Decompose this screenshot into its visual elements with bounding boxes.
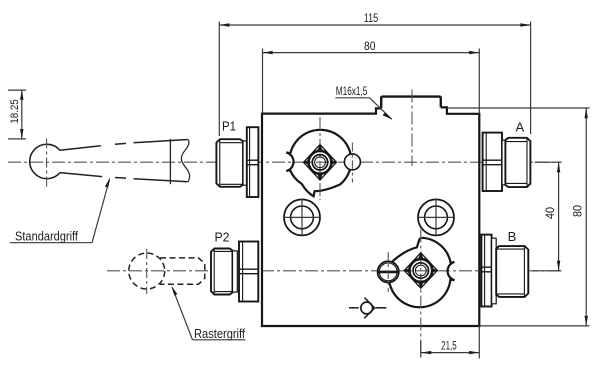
port A flange inner line bbox=[485, 133, 487, 191]
svg-text:B: B bbox=[508, 229, 517, 244]
svg-text:40: 40 bbox=[543, 207, 557, 219]
centerline handle ball vertical bbox=[46, 139, 48, 187]
centerline spool top vertical bbox=[319, 117, 321, 200]
centerline spool bottom vertical bbox=[420, 230, 422, 356]
port P1 washer bbox=[243, 141, 247, 185]
dimension 18.25 bbox=[8, 90, 26, 140]
svg-text:P2: P2 bbox=[215, 230, 230, 245]
svg-text:A: A bbox=[515, 119, 524, 134]
port B plug thread lines bbox=[496, 249, 524, 294]
body block outline bbox=[262, 107, 479, 326]
svg-text:Rastergriff: Rastergriff bbox=[194, 326, 245, 341]
dimension 80 right bbox=[447, 108, 590, 326]
label Rastergriff with leader bbox=[172, 286, 246, 341]
spool bottom diamond bbox=[404, 253, 437, 288]
port B flange seams bbox=[481, 267, 496, 272]
handle ball Standardgriff bbox=[30, 144, 60, 178]
Rastergriff grip dashed outline bbox=[160, 258, 205, 284]
port A plug bbox=[505, 138, 530, 187]
screw plug bottom bbox=[378, 261, 399, 282]
svg-text:P1: P1 bbox=[222, 118, 236, 133]
port P2 plug thread lines bbox=[214, 251, 232, 291]
svg-text:Standardgriff: Standardgriff bbox=[15, 229, 78, 244]
port B plug chamfer line bbox=[523, 247, 525, 296]
dimension 115 bbox=[219, 11, 530, 136]
handle joint line bbox=[169, 139, 171, 184]
spool bottom rings bbox=[409, 259, 432, 282]
centerline main horizontal P2-B axis bbox=[107, 270, 562, 272]
centerline rastergriff ball vertical bbox=[146, 249, 148, 294]
svg-text:21,5: 21,5 bbox=[441, 340, 457, 352]
dimension 40 bbox=[532, 162, 562, 271]
port P2 flange bbox=[239, 242, 258, 302]
port P2 flange seams bbox=[239, 269, 258, 274]
spool top outline bbox=[286, 130, 351, 197]
check valve symbol bbox=[349, 298, 386, 319]
port B flange inner line bbox=[484, 235, 486, 307]
callout M16x1,5 bbox=[335, 86, 392, 120]
boss M16 bbox=[381, 97, 441, 109]
handle break line bbox=[181, 140, 189, 182]
port P2 plug chamfer line bbox=[213, 249, 215, 293]
label Standardgriff with leader bbox=[10, 177, 111, 243]
port B washer bbox=[492, 238, 497, 304]
dimension 21,5 bbox=[421, 326, 480, 359]
svg-text:80: 80 bbox=[571, 205, 585, 217]
spool top arrows bbox=[303, 144, 337, 181]
port A plug chamfer line bbox=[526, 139, 528, 187]
handle cone top edge bbox=[60, 140, 188, 151]
svg-text:18.25: 18.25 bbox=[9, 99, 21, 124]
port P1 flange seams bbox=[247, 160, 259, 165]
svg-text:80: 80 bbox=[364, 39, 376, 53]
port B flange bbox=[481, 235, 491, 307]
centerline boss vertical bbox=[411, 90, 413, 167]
svg-text:115: 115 bbox=[364, 11, 379, 25]
Rastergriff ball dashed bbox=[129, 253, 165, 289]
port P1 plug bbox=[216, 139, 243, 187]
centerline small circle vertical bbox=[351, 143, 353, 183]
port P2 plug bbox=[211, 249, 233, 295]
port P2 washer bbox=[233, 251, 238, 292]
port P2 flange inner line bbox=[242, 242, 244, 302]
dimension 80 top bbox=[263, 39, 480, 114]
port P1 plug chamfer line bbox=[219, 140, 221, 186]
port P1 flange inner line bbox=[249, 127, 251, 197]
spool top small circle bbox=[344, 154, 360, 170]
spool top rings bbox=[309, 151, 332, 174]
port A plug thread lines bbox=[505, 142, 527, 184]
spool bottom outline bbox=[389, 238, 455, 307]
handle cone bottom edge bbox=[60, 173, 188, 182]
port A washer bbox=[502, 140, 505, 185]
port B plug bbox=[496, 246, 528, 297]
port A flange bbox=[483, 133, 502, 191]
port P1 plug thread lines bbox=[220, 143, 243, 185]
centerline screw vertical bbox=[387, 252, 389, 292]
spool top diamond bbox=[304, 145, 337, 180]
counterbore hole left bbox=[284, 199, 321, 236]
port P1 flange bbox=[247, 127, 259, 197]
counterbore hole right bbox=[418, 199, 455, 236]
svg-text:M16x1,5: M16x1,5 bbox=[336, 86, 368, 98]
centerline main horizontal P1-A axis bbox=[8, 161, 562, 163]
port A flange seams bbox=[483, 160, 502, 165]
spool bottom arrows bbox=[404, 252, 438, 289]
